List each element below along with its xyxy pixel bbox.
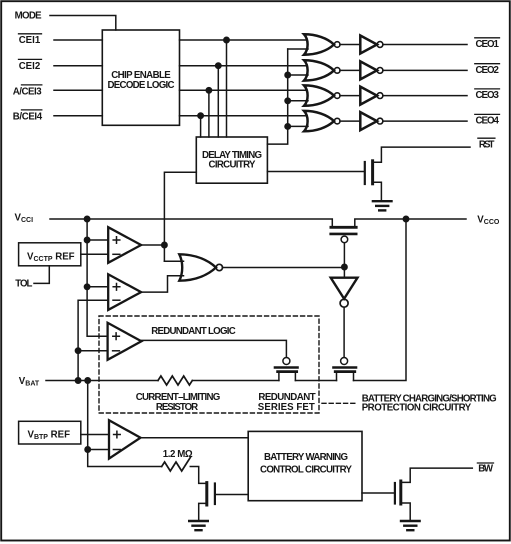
svg-text:1.2 MΩ: 1.2 MΩ (163, 449, 193, 460)
resistor 1.2M (162, 458, 191, 472)
wire G3 to inverter (340, 95, 360, 97)
inverter U1 (360, 36, 383, 54)
op-amp comp-redundant (108, 323, 142, 360)
NOR gate G4 (304, 111, 340, 131)
svg-text:A/CEI3: A/CEI3 (13, 86, 42, 97)
wire comp3 out (141, 437, 249, 439)
label CEO2 (476, 65, 499, 76)
node VBAT sense B (85, 378, 90, 383)
overline CEI2 (19, 58, 42, 60)
svg-text:B/CEI4: B/CEI4 (13, 111, 43, 122)
wire VCCI rail (50, 219, 332, 227)
block VBTP REF (19, 421, 81, 444)
label CEO3 (476, 90, 500, 101)
label TOL (15, 279, 32, 290)
label CURRENT-LIMITING RESISTOR (136, 392, 221, 413)
NOR gate G2 (304, 60, 340, 80)
wire Q-warn gate to box (216, 494, 248, 496)
svg-text:BW: BW (478, 463, 494, 474)
wire into gate4 lower input (288, 125, 308, 127)
node VCCI sense (84, 216, 89, 221)
label REDUNDANT SERIES FET (258, 392, 316, 413)
transistor Q-pass gate bubble (341, 236, 348, 243)
ground Q-warn (189, 521, 208, 530)
svg-text:VCCO: VCCO (477, 214, 500, 226)
node comp3 minus (85, 447, 90, 452)
svg-text:PROTECTION CIRCUITRY: PROTECTION CIRCUITRY (362, 402, 472, 413)
wire comp2 plus (87, 286, 108, 288)
block battery warning control circuitry (248, 431, 362, 500)
wire delay out to NOR second inputs (267, 49, 287, 144)
transistor Q-charge gate bubble (341, 358, 348, 365)
wire CEI1 input (54, 39, 102, 41)
node comp2 plus (84, 284, 89, 289)
transistor Q-series gate bar (275, 366, 298, 369)
wire into gate1 lower input (288, 48, 308, 50)
op-amp comp2 (108, 274, 141, 310)
transistor Q-pass channel (332, 219, 466, 227)
wire decode out 2 (180, 65, 307, 67)
block delay timing circuitry (196, 137, 267, 183)
wire comp3 plus (81, 434, 109, 436)
svg-text:DECODE LOGIC: DECODE LOGIC (108, 80, 175, 91)
wire Q-RST source (374, 182, 382, 200)
node comp1 plus (84, 237, 89, 242)
overline RST (478, 137, 495, 139)
wire into gate2 lower input (288, 74, 308, 76)
label CEI2 (19, 61, 41, 72)
ground RST (373, 201, 392, 210)
node dot 4 (198, 113, 203, 118)
wire into mid gate top (164, 260, 183, 262)
overline BW (477, 462, 493, 464)
wire drop 1 to delay (226, 40, 228, 137)
wire CEO4 out (383, 120, 467, 122)
svg-text:VBAT: VBAT (19, 376, 40, 388)
wire inverter out down (343, 307, 345, 357)
inverter U4 (360, 112, 383, 130)
label CEO4 (476, 116, 500, 127)
wire VBAT rail mid (192, 380, 279, 382)
NOR gate G1 (304, 34, 340, 54)
op-amp comp3 (109, 420, 141, 458)
svg-text:VBTP REF: VBTP REF (28, 429, 71, 441)
wire comp2 out to mid gate bottom (141, 276, 183, 292)
wire drop 3 to delay (208, 90, 210, 137)
wire decode out 3 (180, 89, 307, 91)
svg-text:RESISTOR: RESISTOR (156, 402, 198, 413)
resistor current-limiting (158, 376, 192, 385)
node gate drive junction (342, 264, 347, 269)
svg-text:VCCTP REF: VCCTP REF (27, 251, 75, 263)
svg-text:REDUNDANT LOGIC: REDUNDANT LOGIC (151, 326, 236, 337)
wire Q-pass gate down (343, 243, 345, 267)
transistor Q-RST channel bar (371, 161, 374, 184)
wire Q-warn source (199, 503, 206, 519)
wire VBAT rail left (46, 380, 158, 382)
node dot 2 (216, 63, 221, 68)
svg-text:CEO2: CEO2 (476, 65, 499, 76)
wire Q-BW source (402, 503, 410, 519)
wire drop 4 to delay (200, 116, 202, 137)
node dot gate2 lower input (285, 72, 290, 77)
comp1 plus sign (113, 237, 120, 244)
node comp1/delay junction (162, 242, 167, 247)
inverter down U5 (331, 278, 358, 308)
label BW (478, 463, 494, 474)
wire VBAT sense down (88, 381, 162, 467)
comp3 plus sign (114, 431, 121, 438)
overline CEO2 (475, 63, 500, 65)
wire comp1 plus (87, 239, 108, 241)
wire comp2 minus to VBAT sense (78, 300, 108, 380)
overline CEI4 (22, 109, 42, 111)
transistor Q-BW channel bar (399, 481, 402, 504)
block VCCTP REF (19, 243, 81, 266)
op-amp comp1 (108, 227, 141, 263)
label VCCI (15, 212, 34, 224)
transistor Q-series gate bubble (283, 358, 290, 365)
wire comp1 minus from ref (81, 253, 108, 255)
wire comp1 out (141, 244, 164, 246)
wire comp-red minus (78, 350, 108, 352)
wire delay left out (164, 172, 196, 261)
wire CEO3 out (383, 95, 467, 97)
svg-text:CEO4: CEO4 (476, 116, 500, 127)
node comp-red minus (75, 348, 80, 353)
wire G1 to inverter (340, 44, 360, 46)
node dot 3 (206, 88, 211, 93)
wire Q-charge to VCCO (354, 219, 407, 381)
wire resistor to Q-warn drain (190, 467, 205, 484)
wire delay out to RST gate (267, 171, 363, 173)
transistor Q-pass gate bar (331, 233, 357, 236)
overline CEO4 (475, 113, 500, 115)
svg-text:MODE: MODE (15, 10, 43, 21)
label B/CEI4 (13, 111, 43, 122)
wire Q-RST drain to RST (374, 147, 471, 162)
ground Q-BW (401, 521, 420, 530)
wire Q-BW drain to BW (402, 468, 472, 482)
wire MODE input (50, 16, 116, 31)
comp1 minus sign (113, 253, 120, 255)
dashed box redundant section (99, 316, 319, 413)
wire box out to Q-BW gate (362, 492, 394, 494)
block chip enable decode logic (102, 30, 179, 125)
label RST (479, 139, 495, 150)
wire TOL (34, 266, 49, 284)
wire CEI4 input (54, 115, 102, 117)
svg-text:CEO1: CEO1 (476, 39, 500, 50)
overline CEO1 (475, 37, 500, 39)
transistor Q-RST gate bar (364, 162, 366, 184)
wire decode out 4 (180, 115, 307, 117)
comp-redundant minus sign (113, 350, 120, 352)
wire mid gate out (223, 267, 345, 269)
svg-text:CIRCUITRY: CIRCUITRY (209, 160, 257, 171)
svg-text:BATTERY WARNING: BATTERY WARNING (264, 452, 348, 463)
comp3 minus sign (113, 449, 120, 451)
transistor Q-warn gate bar (214, 484, 216, 505)
label VCCO (477, 214, 500, 226)
svg-text:CONTROL CIRCUITRY: CONTROL CIRCUITRY (260, 464, 353, 475)
wire CEI2 input (54, 65, 102, 67)
overline CEI3 (22, 84, 42, 86)
wire drop 2 to delay (217, 66, 219, 137)
wire junction to inverter (343, 267, 345, 278)
NOR gate mid (179, 254, 222, 280)
svg-text:CEI1: CEI1 (19, 35, 41, 46)
svg-text:CEI2: CEI2 (19, 61, 41, 72)
NOR gate G3 (304, 85, 340, 105)
dashed leader to protection text (322, 402, 356, 404)
node dot 1 (224, 37, 229, 42)
wire VCC sense vertical (87, 219, 108, 336)
node dot gate3 lower input (285, 98, 290, 103)
wire into gate3 lower input (288, 100, 308, 102)
wire G4 to inverter (340, 120, 360, 122)
transistor Q-charge gate bar (334, 366, 357, 369)
label REDUNDANT LOGIC (151, 326, 236, 337)
wire CEO1 out (383, 44, 467, 46)
wire comp3 minus (88, 449, 109, 451)
transistor Q-warn channel bar (205, 483, 208, 505)
transistor Q-series channel (279, 372, 296, 380)
svg-text:VCCI: VCCI (15, 212, 34, 224)
overline CEI1 (19, 33, 42, 35)
transistor Q-BW gate bar (394, 483, 396, 504)
overline CEO3 (475, 88, 500, 90)
wire VBAT rail between FETs (295, 380, 336, 382)
svg-text:CEO3: CEO3 (476, 90, 500, 101)
comp2 plus sign (113, 284, 120, 291)
label VBAT (19, 376, 40, 388)
wire CEO2 out (383, 69, 467, 71)
node VBAT sense A (75, 378, 80, 383)
label A/CEI3 (13, 86, 42, 97)
wire CEI3 input (54, 89, 102, 91)
node VCCO junction (403, 216, 408, 221)
wire decode out 1 (180, 39, 307, 41)
label BATTERY CHARGING/SHORTING PROTECTION CIRCUITRY (362, 394, 497, 414)
svg-text:RST: RST (479, 139, 495, 150)
inverter U2 (360, 61, 383, 79)
node dot gate4 lower input (285, 124, 290, 129)
wire G2 to inverter (340, 69, 360, 71)
inverter U3 (360, 87, 383, 105)
svg-text:SERIES FET: SERIES FET (258, 402, 315, 413)
comp2 minus sign (113, 299, 120, 301)
svg-text:TOL: TOL (15, 279, 32, 290)
wire comp-red out to series FET gate (141, 340, 286, 357)
label CEO1 (476, 39, 500, 50)
transistor Q-charge channel (337, 372, 354, 380)
comp-redundant plus sign (113, 333, 120, 340)
label 1.2 Mohm (163, 449, 193, 460)
label CEI1 (19, 35, 41, 46)
